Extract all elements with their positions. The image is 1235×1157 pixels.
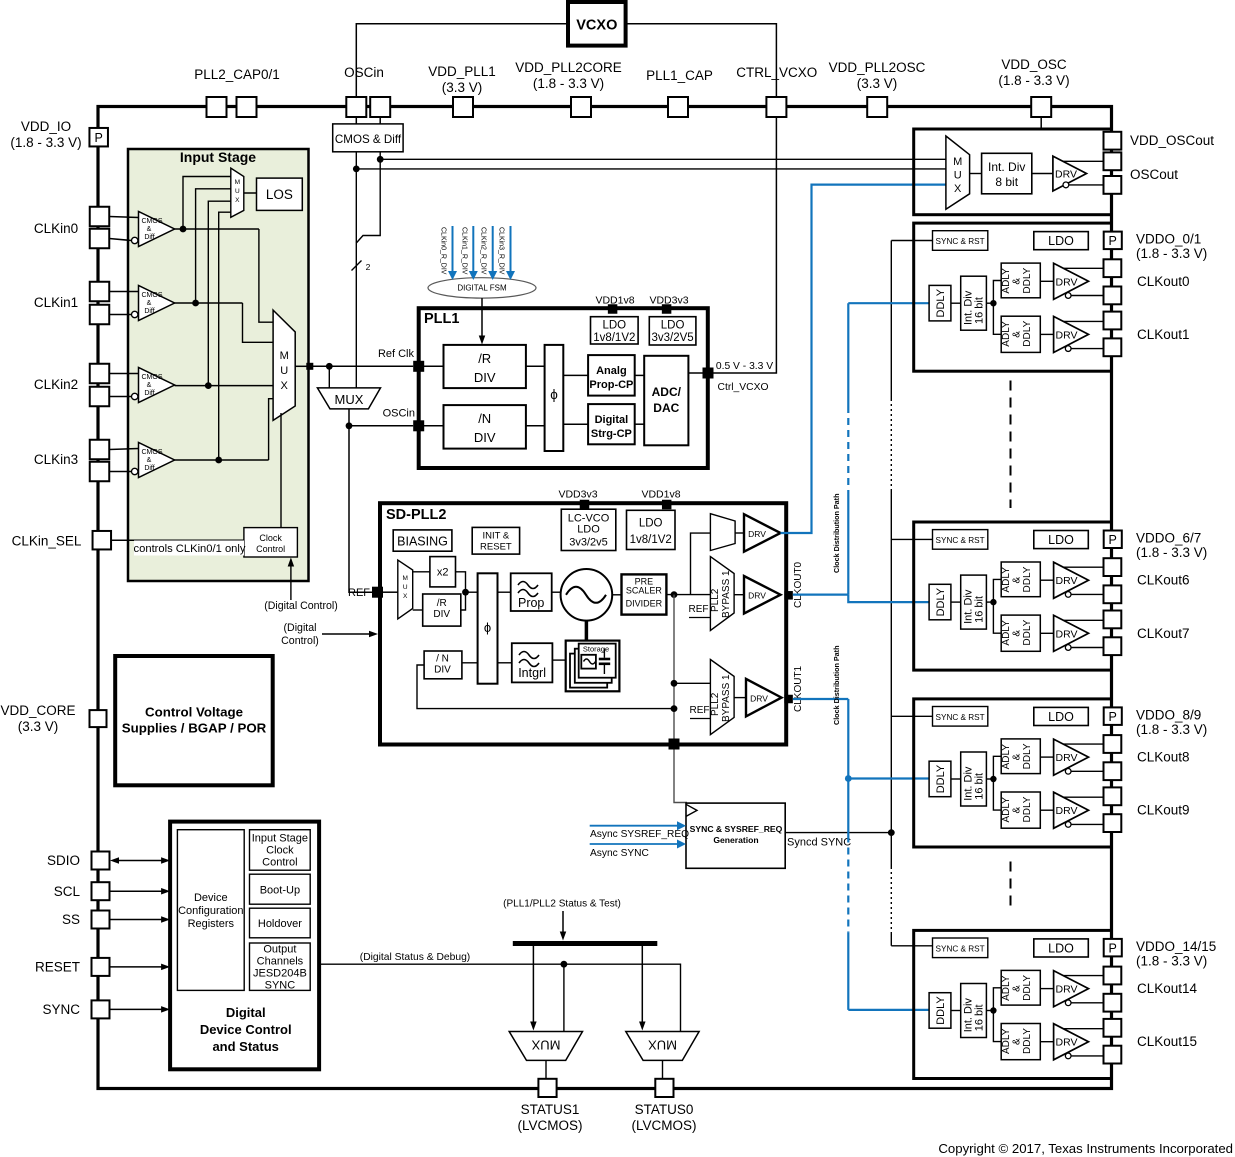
wire blue to ch0/1 DDLY	[848, 302, 929, 304]
pin CLKin3+	[90, 440, 110, 460]
phase detector (PLL2)	[478, 573, 498, 683]
svg-text:REF: REF	[348, 587, 370, 599]
svg-text:CLKin1: CLKin1	[34, 295, 78, 310]
wire to ADLY upper ch0/1	[993, 281, 1001, 304]
x2 box	[430, 557, 456, 587]
wire blue vertical lower solid b	[847, 933, 849, 1010]
junction IntDiv ch0/1	[990, 300, 996, 306]
svg-text:LDO: LDO	[1048, 533, 1074, 547]
wire x2 out	[456, 572, 466, 592]
svg-text:ADLY: ADLY	[1001, 744, 1012, 770]
svg-text:Generation: Generation	[713, 835, 758, 845]
svg-text:CLKout8: CLKout8	[1137, 750, 1190, 765]
svg-text:REF: REF	[690, 705, 710, 716]
ADLY & DDLY box ch6/7 0	[1001, 562, 1040, 597]
buffer CMOS & Diff 2	[139, 368, 175, 403]
driver DRV CLKout6	[1054, 562, 1089, 598]
svg-text:CLKin3: CLKin3	[34, 452, 78, 467]
SYNC & RST box ch8/9	[933, 707, 988, 727]
svg-text:Digital: Digital	[226, 1005, 266, 1020]
wire to lower bypass mux	[674, 682, 710, 684]
pin VDD3v3 (PLL1)	[662, 304, 672, 314]
svg-text:LDO: LDO	[1048, 234, 1074, 248]
wire DRV+ CLKout7	[1063, 619, 1103, 621]
svg-text:ADLY: ADLY	[1001, 268, 1012, 294]
wire REF to mux	[383, 591, 398, 593]
wire DRV+ CLKout8	[1063, 743, 1103, 745]
LDO box ch8/9	[1034, 707, 1089, 725]
pin CLKin1+	[90, 282, 110, 302]
svg-text:DDLY: DDLY	[1022, 975, 1033, 1001]
wire DRV- CLKout15	[1065, 1053, 1071, 1059]
svg-text:DDLY: DDLY	[935, 587, 947, 616]
wire CLKin3- to buffer	[109, 471, 131, 473]
wire CLKin2- to buffer	[109, 396, 131, 398]
wire clock control to mux	[280, 413, 282, 528]
junction feedback	[671, 705, 678, 712]
svg-text:VDD_IO: VDD_IO	[21, 119, 71, 134]
pin CLKout8-	[1104, 762, 1122, 780]
junction buf0	[180, 226, 187, 233]
VCXO box	[568, 2, 626, 46]
driver DRV CLKout1	[1054, 316, 1089, 352]
mux OSCout	[946, 136, 970, 209]
junction blue ch8/9	[845, 775, 852, 782]
svg-text:SYNC & RST: SYNC & RST	[936, 713, 985, 722]
wire ADLY to DRV ch6/7 1	[1040, 632, 1053, 634]
junction syncd sync	[888, 829, 895, 836]
pin P ch6/7	[1104, 531, 1122, 549]
wire sync distribution dotted 2	[890, 867, 892, 932]
pin CLKOUT1	[784, 695, 793, 704]
svg-text:(1.8 - 3.3 V): (1.8 - 3.3 V)	[1136, 722, 1207, 737]
pin CLKin3-	[90, 462, 110, 482]
wire phase det to Prop	[498, 591, 511, 593]
wire OSCin pins to CMOS & Diff box	[355, 117, 357, 124]
Clock Control box	[244, 528, 298, 557]
wire blue vertical lower solid a	[847, 699, 849, 836]
junction buf1	[192, 300, 199, 307]
svg-text:CLKout9: CLKout9	[1137, 803, 1190, 818]
ADLY & DDLY box ch8/9 0	[1001, 739, 1040, 774]
Digital Device Control and Status box	[170, 822, 319, 1070]
svg-text:Async SYSREF_REQ: Async SYSREF_REQ	[590, 829, 689, 840]
svg-text:Copyright © 2017, Texas Instru: Copyright © 2017, Texas Instruments Inco…	[938, 1141, 1233, 1156]
svg-text:&: &	[1012, 331, 1023, 338]
pin VDD_OSC	[1031, 97, 1051, 117]
pin CLKin1-	[90, 305, 110, 325]
wire blue vertical upper dashed	[847, 406, 849, 497]
PLL1 block	[419, 308, 708, 468]
wire CLKin0+ to buffer	[109, 217, 138, 218]
wire sync distribution upper	[890, 241, 892, 400]
svg-text:Configuration: Configuration	[178, 905, 243, 917]
svg-text:DDLY: DDLY	[1022, 320, 1033, 346]
pin OSCin (PLL1)	[413, 420, 424, 431]
wire top mux to DRV	[735, 532, 744, 534]
mux input stage CLKin select	[273, 310, 295, 420]
pin VDD_CORE	[90, 710, 107, 727]
svg-text:X: X	[235, 197, 240, 204]
svg-text:&: &	[1012, 985, 1023, 992]
svg-text:PLL2_CAP0/1: PLL2_CAP0/1	[194, 67, 280, 82]
output channel VDDO_8/9 block	[914, 699, 1112, 847]
junction prescaler out	[671, 591, 678, 598]
junction IntDiv ch14/15	[990, 1007, 996, 1013]
wire DRV- CLKout8	[1065, 768, 1071, 774]
svg-text:DIV: DIV	[434, 665, 451, 676]
svg-text:Input Stage: Input Stage	[180, 149, 256, 165]
Control Voltage Supplies / BGAP / POR box	[115, 656, 273, 785]
svg-text:3v3/2V5: 3v3/2V5	[651, 332, 693, 344]
separator dashed upper	[1010, 381, 1012, 509]
wire buf2 out	[175, 385, 274, 387]
pin PLL1_CAP	[668, 97, 688, 117]
svg-text:CMOS: CMOS	[142, 292, 163, 299]
svg-text:VDD3v3: VDD3v3	[558, 489, 597, 501]
Int. Div 16 bit box ch14/15	[961, 984, 987, 1038]
wire VCXO to CTRL_VCXO pin	[626, 24, 777, 97]
svg-text:CLKout6: CLKout6	[1137, 573, 1190, 588]
svg-text:/N: /N	[478, 411, 491, 426]
pin CTRL_VCXO	[766, 97, 786, 117]
wire ref to phase det (PLL2)	[466, 591, 478, 593]
svg-text:MUX: MUX	[531, 1038, 560, 1053]
svg-text:LDO: LDO	[661, 320, 685, 332]
VCO oscillator	[561, 569, 613, 621]
pin VDD3v3 (PLL2)	[580, 500, 590, 510]
svg-text:CLKin1_R_DIV: CLKin1_R_DIV	[460, 227, 467, 275]
svg-text:U: U	[954, 170, 962, 182]
wire CLKin2_R_DIV blue arrow	[492, 226, 494, 271]
wire Analg CP to ADC	[635, 374, 645, 376]
pin VDD1v8 (PLL2)	[662, 500, 672, 510]
svg-text:SS: SS	[62, 912, 80, 927]
Boot-Up box	[250, 874, 311, 904]
svg-text:PLL2: PLL2	[710, 588, 721, 612]
Int. Div 16 bit box ch0/1	[961, 276, 987, 330]
svg-text:VDDO_0/1: VDDO_0/1	[1136, 232, 1201, 247]
svg-text:CMOS: CMOS	[142, 374, 163, 381]
svg-text:Holdover: Holdover	[258, 918, 302, 930]
wire DRV+ to OSCout pin	[1063, 160, 1104, 162]
pin CLKin2-	[90, 387, 110, 407]
wire sync branch ch8/9	[891, 715, 932, 717]
wire ADLY to DRV ch0/1 1	[1040, 333, 1053, 335]
svg-text:LDO: LDO	[1048, 941, 1074, 955]
svg-text:(PLL1/PLL2 Status & Test): (PLL1/PLL2 Status & Test)	[503, 899, 621, 910]
pin STATUS1	[538, 1079, 556, 1097]
svg-text:DRV: DRV	[1056, 805, 1078, 817]
junction buf3	[215, 457, 222, 464]
output channel VDDO_6/7 block	[914, 522, 1112, 670]
wire DRV- CLKout14	[1065, 1000, 1071, 1006]
junction debug branch	[561, 961, 568, 968]
wire to ADLY lower ch0/1	[993, 303, 1001, 334]
svg-text:(Digital Control): (Digital Control)	[264, 600, 338, 612]
svg-text:SYNC: SYNC	[265, 980, 296, 992]
svg-text:OSCin: OSCin	[344, 65, 384, 80]
wire sync branch ch6/7	[891, 538, 932, 540]
buffer CMOS & Diff 1	[139, 286, 175, 321]
svg-text:CMOS: CMOS	[142, 218, 163, 225]
wire CLKin3+ to buffer	[109, 449, 138, 450]
wire ADLY to DRV ch6/7 0	[1040, 579, 1053, 581]
wire DRV- CLKout6	[1065, 592, 1071, 598]
svg-text:Input Stage: Input Stage	[252, 833, 308, 845]
svg-text:REF: REF	[689, 604, 709, 615]
svg-text:ADLY: ADLY	[1001, 567, 1012, 593]
svg-text:DRV: DRV	[748, 591, 766, 601]
junction right output	[377, 156, 384, 163]
svg-text:LDO: LDO	[577, 524, 600, 536]
wire CLKin1+ to buffer	[109, 291, 138, 293]
wire Intgrl to storage	[552, 659, 565, 661]
pin CLKout14-	[1104, 994, 1122, 1012]
svg-text:VDD_OSCout: VDD_OSCout	[1130, 133, 1214, 148]
wire CLKin_SEL to Clock Control	[111, 539, 244, 541]
wire IntDiv out ch6/7	[986, 601, 993, 603]
wire status test arrow	[562, 911, 564, 933]
svg-text:M: M	[235, 179, 240, 186]
wire IntDiv out ch8/9	[986, 778, 993, 780]
svg-text:CLKin2: CLKin2	[34, 377, 78, 392]
pin CLKout9-	[1104, 814, 1122, 832]
wire buf0 to input mux	[259, 229, 273, 322]
svg-text:/ N: / N	[436, 654, 449, 665]
svg-text:RESET: RESET	[480, 542, 512, 553]
wire OSC line to OSCout mux upper	[380, 158, 946, 160]
driver DRV CLKout0	[1054, 263, 1089, 299]
svg-text:MUX: MUX	[648, 1038, 677, 1053]
svg-text:P: P	[1109, 533, 1117, 547]
svg-text:&: &	[147, 226, 152, 233]
mux STATUS1	[509, 1032, 582, 1061]
svg-text:SYNC & RST: SYNC & RST	[936, 237, 985, 246]
wire IntDiv out ch14/15	[986, 1010, 993, 1012]
wire SCL	[110, 890, 162, 892]
svg-text:P: P	[95, 131, 103, 145]
svg-text:VCXO: VCXO	[576, 18, 617, 34]
pin VDD_OSCout	[1104, 132, 1122, 150]
LDO box ch14/15	[1034, 939, 1089, 957]
svg-text:(LVCMOS): (LVCMOS)	[517, 1118, 582, 1133]
SYNC & RST box ch0/1	[933, 231, 988, 251]
pin VDD_PLL2CORE	[571, 97, 591, 117]
DDLY box ch8/9	[929, 761, 951, 797]
ADLY & DDLY box ch14/15 0	[1001, 970, 1040, 1005]
svg-text:DRV: DRV	[1056, 276, 1078, 288]
DDLY box ch6/7	[929, 584, 951, 620]
svg-text:/R: /R	[478, 351, 491, 366]
svg-text:OSCout: OSCout	[1130, 167, 1178, 182]
pin CLKout0+	[1104, 259, 1122, 277]
driver DRV CLKout8	[1054, 739, 1089, 775]
svg-text:CLKout15: CLKout15	[1137, 1034, 1197, 1049]
LDO 3v3/2V5 box	[649, 317, 696, 345]
wire branch to OSC mux	[328, 366, 330, 388]
svg-text:P: P	[1109, 710, 1117, 724]
wire /R DIV to phase det	[526, 365, 545, 367]
wire DRV+ CLKout0	[1063, 267, 1103, 269]
mux PLL2 ref select	[398, 560, 413, 619]
svg-text:VDD_PLL1: VDD_PLL1	[428, 64, 496, 79]
wire blue elbow to ch6/7 DDLY	[848, 595, 929, 603]
pin Ref Clk (PLL1)	[413, 361, 424, 372]
svg-text:VDD_CORE: VDD_CORE	[0, 703, 75, 718]
wire DRV+ CLKout1	[1063, 320, 1103, 322]
wire RESET	[110, 966, 162, 968]
wire to ADLY lower ch8/9	[993, 779, 1001, 810]
svg-text:DRV: DRV	[748, 529, 766, 539]
svg-text:PLL1_CAP: PLL1_CAP	[646, 68, 713, 83]
svg-text:(1.8 - 3.3 V): (1.8 - 3.3 V)	[1136, 246, 1207, 261]
svg-text:LOS: LOS	[266, 187, 293, 202]
wire blue CLKOUT1 net	[793, 698, 848, 700]
svg-text:U: U	[235, 188, 240, 195]
svg-text:DRV: DRV	[1056, 752, 1078, 764]
Int. Div 8 bit box	[982, 153, 1032, 194]
svg-text:CLKin0: CLKin0	[34, 221, 78, 236]
wire mux to /R DIV (PLL2)	[413, 609, 423, 611]
pin CLKin0-	[90, 229, 110, 249]
driver DRV CLKout7	[1054, 615, 1089, 651]
wire sync branch ch14/15	[891, 945, 932, 947]
ADLY & DDLY box ch8/9 1	[1001, 792, 1040, 828]
svg-text:STATUS0: STATUS0	[635, 1102, 694, 1117]
Output Channels JESD204B SYNC box	[250, 943, 311, 990]
wire bypass to DRV CLKOUT0	[734, 594, 744, 596]
wire bus to STATUS1 mux	[532, 946, 534, 1022]
junction ref merge	[462, 589, 469, 596]
wire VCO to prescaler	[612, 594, 621, 596]
mux STATUS0	[626, 1032, 699, 1061]
svg-text:P: P	[1109, 234, 1117, 248]
label controls CLKin0/1 only	[134, 541, 244, 556]
svg-text:3v3/2v5: 3v3/2v5	[569, 537, 608, 549]
svg-text:Boot-Up: Boot-Up	[260, 885, 300, 897]
svg-text:VDDO_6/7: VDDO_6/7	[1136, 530, 1201, 545]
svg-text:8 bit: 8 bit	[995, 175, 1018, 189]
node input mux output on border	[306, 363, 313, 370]
wire feedback to /N DIV	[417, 665, 674, 709]
phase detector (PLL1)	[545, 345, 564, 451]
status bus bar	[513, 941, 658, 946]
wire IntDiv out ch0/1	[986, 302, 993, 304]
svg-text:DRV: DRV	[1056, 329, 1078, 341]
bus width slash 2	[352, 261, 362, 271]
svg-text:&: &	[1012, 630, 1023, 637]
wire FSM to /R DIV arrow	[481, 298, 483, 336]
svg-text:&: &	[1012, 807, 1023, 814]
buffer CMOS & Diff 3	[139, 443, 175, 478]
wire to ADLY upper ch8/9	[993, 756, 1001, 779]
mux PLL2 BYPASS 1 lower	[710, 660, 734, 735]
svg-text:LDO: LDO	[602, 320, 626, 332]
svg-text:Prop: Prop	[518, 596, 544, 610]
OSCout block	[914, 129, 1112, 215]
svg-text:16 bit: 16 bit	[974, 773, 986, 800]
svg-text:Clock: Clock	[259, 533, 282, 543]
svg-text:(3.3 V): (3.3 V)	[442, 80, 483, 95]
svg-text:and Status: and Status	[212, 1039, 278, 1054]
svg-text:DRV: DRV	[1056, 575, 1078, 587]
wire STATUS1 stub	[545, 1060, 547, 1079]
wire SS	[110, 919, 162, 921]
svg-text:Clock Distribution Path: Clock Distribution Path	[832, 494, 841, 573]
wire Ref Clk	[310, 365, 413, 367]
svg-text:DDLY: DDLY	[1022, 1028, 1033, 1054]
svg-text:(1.8 - 3.3 V): (1.8 - 3.3 V)	[533, 76, 604, 91]
wire blue CLKOUT0 net	[793, 593, 848, 595]
Storage block	[566, 641, 620, 692]
svg-text:CLKOUT0: CLKOUT0	[793, 561, 804, 608]
pin SS	[92, 911, 110, 929]
wire buf3 to input mux	[269, 399, 274, 460]
PRE SCALER DIVIDER box	[622, 574, 667, 614]
svg-text:U: U	[403, 584, 408, 591]
svg-text:(Digital: (Digital	[284, 622, 317, 634]
wire buf3 out	[175, 459, 269, 461]
wire Syncd SYNC	[785, 832, 891, 834]
Int. Div 16 bit box ch6/7	[961, 575, 987, 629]
wire digital control arrow into SD-PLL2	[322, 633, 370, 635]
pin STATUS0	[655, 1079, 673, 1097]
svg-text:LDO: LDO	[1048, 710, 1074, 724]
pin VDD1v8 (PLL1)	[608, 304, 618, 314]
wire blue OSC distribution	[781, 185, 946, 533]
pin CLKout15-	[1104, 1046, 1122, 1064]
svg-text:Device: Device	[194, 892, 228, 904]
pin SDIO	[92, 852, 110, 870]
driver DRV CLKout9	[1054, 792, 1089, 828]
output channel VDDO_0/1 block	[914, 223, 1112, 371]
wire feedback vertical	[673, 595, 675, 744]
pin CLKout8+	[1104, 735, 1122, 753]
svg-text:CLKin3_R_DIV: CLKin3_R_DIV	[498, 227, 505, 275]
wire DRV- CLKout1	[1065, 346, 1071, 352]
/N DIV box (PLL2)	[424, 651, 462, 679]
pin CLKout7-	[1104, 637, 1122, 655]
svg-text:MUX: MUX	[335, 392, 364, 407]
wire DRV- to OSCout pin	[1063, 182, 1069, 188]
wire ADLY to DRV ch8/9 1	[1040, 809, 1053, 811]
svg-text:ADC/: ADC/	[652, 385, 682, 399]
svg-text:&: &	[147, 457, 152, 464]
svg-text:Ctrl_VCXO: Ctrl_VCXO	[718, 382, 769, 393]
svg-text:ADLY: ADLY	[1001, 321, 1012, 347]
svg-text:SDIO: SDIO	[47, 853, 80, 868]
Prop filter box	[511, 573, 552, 611]
wire DDLY to IntDiv ch6/7	[951, 601, 961, 603]
output channel VDDO_14/15 block	[914, 930, 1112, 1078]
pin CLKout6+	[1104, 558, 1122, 576]
wire CLKin1_R_DIV blue arrow	[472, 226, 474, 271]
wire ADLY to DRV ch14/15 1	[1040, 1041, 1053, 1043]
junction IntDiv ch6/7	[990, 599, 996, 605]
pin REF (PLL2)	[372, 587, 383, 598]
wire to ADLY upper ch6/7	[993, 579, 1001, 602]
junction OSCin branch	[346, 422, 353, 429]
wire blue vertical upper solid b	[847, 497, 849, 595]
svg-text:16 bit: 16 bit	[974, 596, 986, 623]
ADLY & DDLY box ch6/7 1	[1001, 615, 1040, 651]
driver DRV CLKOUT0	[744, 576, 781, 614]
pin RESET	[92, 958, 110, 976]
svg-text:Strg-CP: Strg-CP	[591, 428, 632, 440]
wire DDLY to IntDiv ch14/15	[951, 1010, 961, 1012]
svg-text:U: U	[280, 365, 288, 377]
